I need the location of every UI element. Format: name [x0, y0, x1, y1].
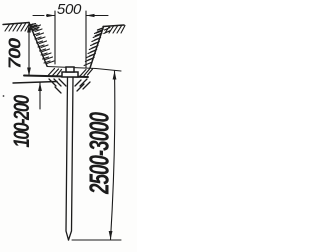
trench wall right inner hatch band: [84, 31, 101, 66]
ground rod right edge: [69, 77, 74, 240]
dimension 700 dimension line: [28, 24, 30, 76]
dimension 100-200 dimension line: [39, 83, 41, 110]
dimension 500 dimension line: [33, 15, 108, 17]
earth hatch below trench bottom right of rod: [75, 79, 90, 91]
ground rod left edge: [66, 77, 69, 240]
dimension 2500-3000 top arrowhead: [113, 71, 117, 80]
trench wall left inner hatch band: [34, 25, 55, 64]
dimension 500 right extension line: [85, 11, 87, 68]
svg-text:2500-3000: 2500-3000: [85, 112, 115, 195]
earth hatch between bottom lines left of rod head: [49, 69, 62, 77]
svg-text:700: 700: [5, 37, 25, 69]
dimension 500 right arrowhead: [86, 14, 95, 17]
rod head block: [66, 67, 74, 72]
dimension 100-200 arrowhead: [38, 83, 42, 92]
ground surface line right: [103, 25, 124, 27]
rod top level line and right extension: [47, 67, 121, 72]
earth hatch between bottom lines right of rod head: [80, 69, 93, 76]
dimension 2500-3000 bottom arrowhead: [109, 231, 113, 240]
trench wall left outer hatch band: [31, 25, 51, 63]
ground hatch right berm: [104, 26, 125, 34]
trench wall right top corner shading: [95, 28, 103, 36]
dimension 500 left arrowhead: [47, 14, 56, 17]
dimension 700 top arrowhead: [27, 24, 31, 33]
dimension 700 bottom arrowhead: [27, 68, 31, 77]
trench wall right: [90, 27, 104, 69]
rod tip extension line: [72, 239, 121, 241]
dimension 2500-3000 dimension line: [111, 71, 115, 240]
trench wall right outer hatch band: [88, 30, 103, 61]
dimension 500 left extension line: [54, 11, 56, 64]
scan speck: [3, 95, 5, 97]
svg-text:100-200: 100-200: [10, 95, 35, 148]
ground hatch left berm: [5, 23, 35, 32]
earth hatch below trench bottom left of rod: [49, 79, 66, 93]
trench wall left top corner shading: [31, 24, 40, 30]
trench wall left: [29, 23, 47, 67]
ground surface line left: [3, 23, 29, 25]
lower level line left (rod top depth reference): [13, 82, 57, 84]
rod head flange plate: [62, 72, 78, 77]
svg-text:500: 500: [57, 1, 82, 18]
trench bottom line: [24, 76, 88, 78]
